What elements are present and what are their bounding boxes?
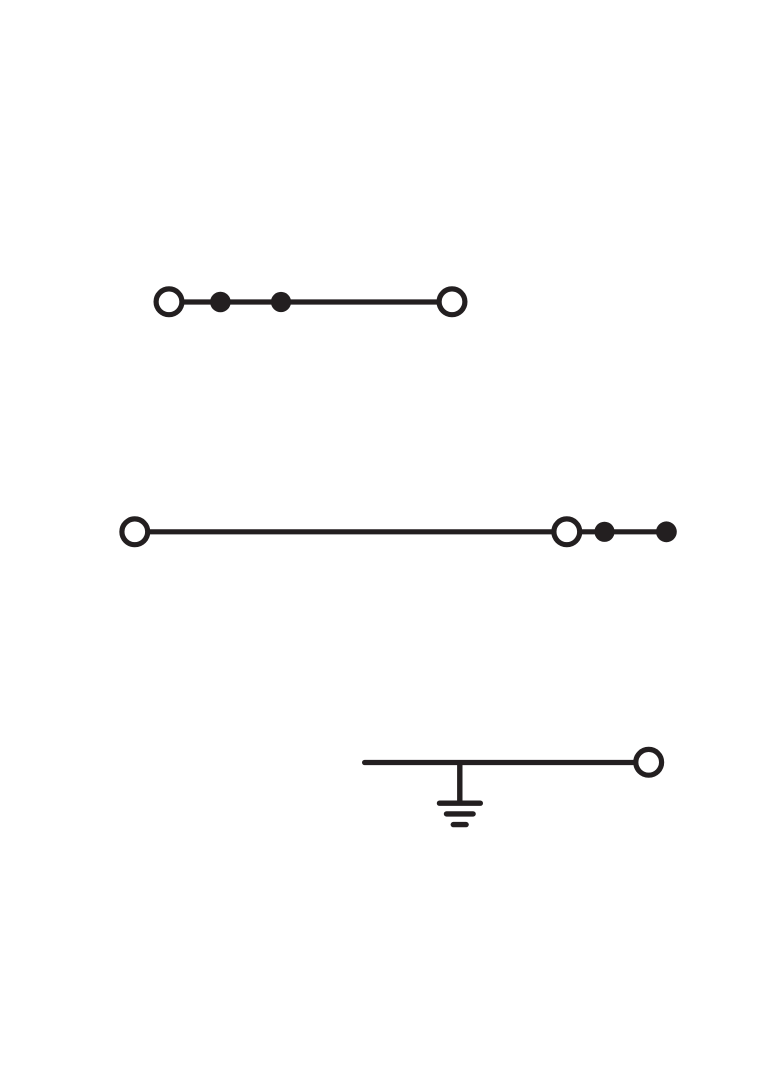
- terminal clamp circle: level 1 right: [439, 289, 465, 315]
- ground: bar 2 (medium): [447, 811, 474, 816]
- ground: vertical stem: [457, 763, 462, 804]
- terminal clamp circle: level 1 left: [156, 289, 182, 315]
- terminal clamp circle: level 2 left: [122, 519, 148, 545]
- terminal clamp circle: level 2 mid-right: [554, 519, 580, 545]
- junction dot: level 1 inner: [210, 292, 231, 313]
- terminal clamp circle: level 3 right: [636, 749, 662, 775]
- ground: bar 3 (short): [453, 822, 466, 827]
- wire: level 1 conductor bar: [170, 299, 451, 304]
- wire: level 3 ground conductor: [365, 760, 648, 765]
- junction dot: level 2 end: [656, 521, 677, 542]
- ground: bar 1 (long): [440, 801, 481, 806]
- junction dot: level 2 inner: [594, 522, 614, 542]
- junction dot: level 1 outer: [271, 292, 291, 312]
- wire: level 2 conductor bar: [136, 529, 666, 534]
